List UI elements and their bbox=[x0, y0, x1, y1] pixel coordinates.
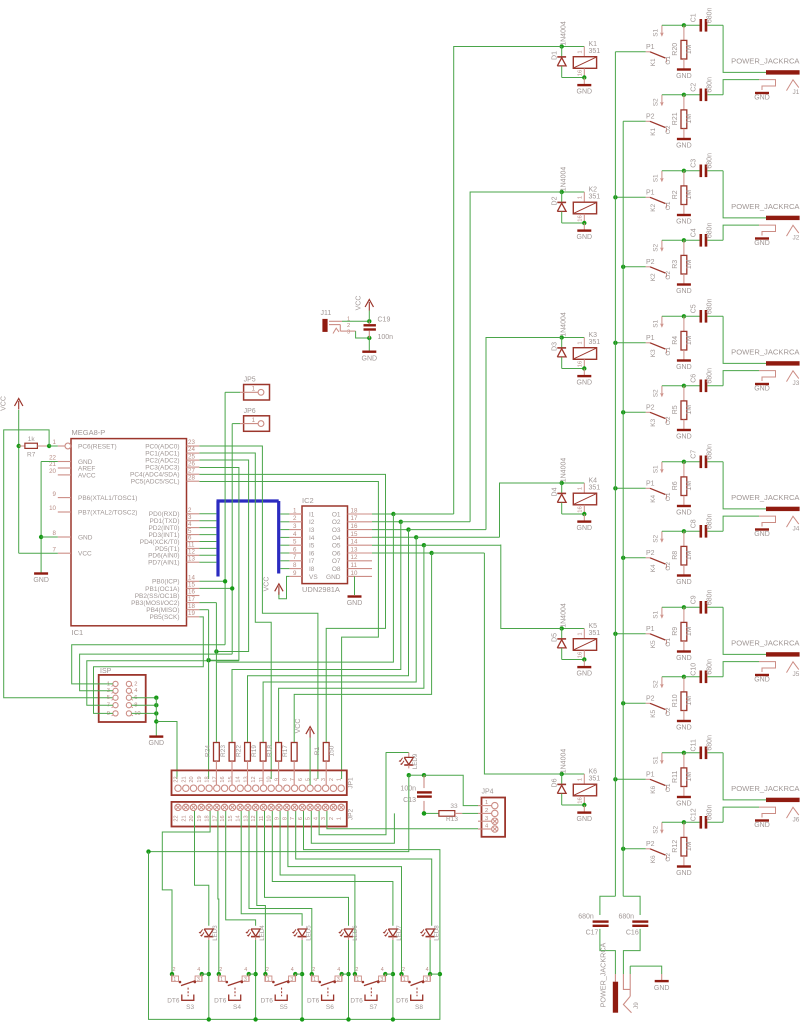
svg-text:LED8: LED8 bbox=[433, 925, 440, 941]
svg-text:1: 1 bbox=[173, 977, 176, 983]
svg-text:S3: S3 bbox=[186, 1004, 194, 1011]
svg-text:351: 351 bbox=[589, 776, 601, 783]
svg-text:GND: GND bbox=[676, 364, 692, 371]
svg-text:3: 3 bbox=[347, 330, 350, 336]
svg-text:22: 22 bbox=[174, 815, 180, 821]
svg-text:3: 3 bbox=[337, 977, 340, 983]
svg-text:PC6(RESET): PC6(RESET) bbox=[78, 443, 117, 450]
svg-text:C4: C4 bbox=[690, 228, 697, 237]
svg-text:4: 4 bbox=[313, 817, 319, 820]
svg-text:20: 20 bbox=[49, 468, 56, 475]
svg-text:4: 4 bbox=[337, 967, 340, 973]
svg-text:P2: P2 bbox=[646, 405, 655, 412]
svg-text:GND: GND bbox=[577, 234, 593, 241]
svg-text:4: 4 bbox=[188, 521, 192, 528]
svg-text:3: 3 bbox=[485, 816, 488, 822]
svg-text:14: 14 bbox=[351, 539, 358, 546]
svg-text:351: 351 bbox=[589, 630, 601, 637]
svg-text:GND: GND bbox=[676, 73, 692, 80]
svg-text:680n: 680n bbox=[707, 735, 714, 751]
svg-text:VCC: VCC bbox=[1, 396, 8, 411]
svg-text:15: 15 bbox=[228, 776, 234, 782]
svg-text:DT6: DT6 bbox=[307, 998, 320, 1005]
svg-text:2: 2 bbox=[219, 967, 222, 973]
svg-text:S8: S8 bbox=[415, 1004, 423, 1011]
svg-text:S6: S6 bbox=[326, 1004, 334, 1011]
svg-text:P1: P1 bbox=[646, 44, 655, 51]
svg-text:22: 22 bbox=[174, 776, 180, 782]
svg-text:1: 1 bbox=[577, 632, 583, 635]
svg-text:GND: GND bbox=[577, 671, 593, 678]
svg-text:18: 18 bbox=[188, 603, 195, 610]
svg-text:S1: S1 bbox=[653, 465, 660, 473]
svg-text:13: 13 bbox=[188, 555, 195, 562]
svg-text:2: 2 bbox=[329, 778, 335, 781]
svg-text:J3: J3 bbox=[793, 380, 800, 387]
svg-text:18: 18 bbox=[351, 507, 358, 514]
svg-text:351: 351 bbox=[589, 194, 601, 201]
svg-text:C12: C12 bbox=[690, 808, 697, 821]
svg-text:1M: 1M bbox=[686, 190, 693, 200]
svg-text:R22: R22 bbox=[236, 745, 243, 757]
svg-text:17: 17 bbox=[351, 515, 358, 522]
svg-text:100n: 100n bbox=[400, 785, 416, 792]
svg-text:1: 1 bbox=[313, 977, 316, 983]
svg-text:C17: C17 bbox=[586, 930, 599, 937]
svg-text:1: 1 bbox=[403, 977, 406, 983]
svg-text:IC1: IC1 bbox=[72, 628, 84, 637]
svg-text:3: 3 bbox=[290, 977, 293, 983]
svg-text:GND: GND bbox=[577, 525, 593, 532]
svg-text:VS: VS bbox=[309, 574, 318, 581]
svg-text:1N4004: 1N4004 bbox=[561, 312, 568, 337]
svg-text:680n: 680n bbox=[707, 659, 714, 675]
svg-text:4: 4 bbox=[244, 967, 247, 973]
svg-text:J5: J5 bbox=[793, 671, 800, 678]
svg-text:C3: C3 bbox=[690, 159, 697, 168]
svg-text:POWER_JACKRCA: POWER_JACKRCA bbox=[731, 638, 800, 647]
svg-text:680n: 680n bbox=[707, 7, 714, 23]
svg-text:PC5(ADC5/SCL): PC5(ADC5/SCL) bbox=[131, 479, 180, 486]
svg-text:21: 21 bbox=[181, 776, 187, 782]
svg-text:K5: K5 bbox=[589, 623, 598, 630]
svg-text:GND: GND bbox=[676, 434, 692, 441]
svg-text:12: 12 bbox=[351, 554, 358, 561]
svg-text:1M: 1M bbox=[686, 550, 693, 560]
svg-text:1M: 1M bbox=[686, 44, 693, 54]
svg-text:S1: S1 bbox=[653, 756, 660, 764]
svg-text:R7: R7 bbox=[27, 452, 36, 459]
svg-text:I3: I3 bbox=[309, 527, 315, 534]
svg-text:K6: K6 bbox=[650, 785, 657, 793]
svg-text:100n: 100n bbox=[378, 334, 394, 341]
svg-text:GND: GND bbox=[577, 816, 593, 823]
svg-text:150: 150 bbox=[329, 745, 336, 756]
svg-text:2: 2 bbox=[134, 681, 137, 687]
svg-text:GND: GND bbox=[362, 355, 378, 362]
svg-text:9: 9 bbox=[275, 778, 281, 781]
svg-text:680n: 680n bbox=[707, 222, 714, 238]
svg-text:GND: GND bbox=[754, 94, 770, 101]
svg-text:GND: GND bbox=[754, 822, 770, 829]
svg-text:J9: J9 bbox=[633, 1002, 640, 1009]
svg-text:R10: R10 bbox=[672, 694, 679, 707]
svg-text:K5: K5 bbox=[650, 640, 657, 648]
svg-text:O2: O2 bbox=[665, 416, 672, 425]
svg-text:D5: D5 bbox=[551, 633, 558, 642]
svg-text:R6: R6 bbox=[672, 481, 679, 490]
svg-text:1: 1 bbox=[53, 439, 57, 446]
svg-text:19: 19 bbox=[197, 815, 203, 821]
svg-text:O1: O1 bbox=[665, 201, 672, 210]
svg-text:S4: S4 bbox=[233, 1004, 241, 1011]
svg-text:J1: J1 bbox=[793, 89, 800, 96]
svg-text:S1: S1 bbox=[653, 28, 660, 36]
svg-text:2: 2 bbox=[173, 967, 176, 973]
svg-text:PD7(AIN1): PD7(AIN1) bbox=[148, 560, 179, 567]
svg-text:O1: O1 bbox=[665, 638, 672, 647]
svg-text:1M: 1M bbox=[686, 626, 693, 636]
svg-text:GND: GND bbox=[754, 385, 770, 392]
svg-text:R17: R17 bbox=[282, 745, 289, 757]
svg-text:PC3(ADC3): PC3(ADC3) bbox=[145, 465, 179, 472]
svg-text:DT6: DT6 bbox=[167, 998, 180, 1005]
svg-text:GND: GND bbox=[676, 870, 692, 877]
svg-text:PB3(MOSI/OC2): PB3(MOSI/OC2) bbox=[131, 600, 179, 607]
svg-text:R13: R13 bbox=[446, 816, 458, 823]
svg-text:VCC: VCC bbox=[78, 551, 92, 558]
svg-text:O8: O8 bbox=[332, 566, 341, 573]
svg-text:S1: S1 bbox=[653, 174, 660, 182]
svg-text:1: 1 bbox=[337, 778, 343, 781]
svg-text:1: 1 bbox=[267, 977, 270, 983]
svg-text:J4: J4 bbox=[793, 526, 800, 533]
svg-text:GND: GND bbox=[676, 725, 692, 732]
svg-text:16: 16 bbox=[577, 70, 583, 76]
svg-text:VCC: VCC bbox=[295, 719, 302, 734]
svg-text:POWER_JACKRCA: POWER_JACKRCA bbox=[731, 56, 800, 65]
svg-text:R20: R20 bbox=[672, 43, 679, 56]
svg-text:GND: GND bbox=[347, 600, 363, 607]
svg-text:R5: R5 bbox=[672, 405, 679, 414]
svg-text:K3: K3 bbox=[589, 332, 598, 339]
svg-text:7: 7 bbox=[293, 554, 297, 561]
svg-text:GND: GND bbox=[676, 219, 692, 226]
svg-text:K3: K3 bbox=[650, 349, 657, 357]
svg-text:R24: R24 bbox=[204, 745, 211, 757]
svg-text:POWER_JACKRCA: POWER_JACKRCA bbox=[599, 942, 608, 1007]
svg-text:6: 6 bbox=[298, 778, 304, 781]
svg-text:P1: P1 bbox=[646, 481, 655, 488]
svg-text:UDN2981A: UDN2981A bbox=[302, 585, 340, 594]
svg-text:19: 19 bbox=[188, 610, 195, 617]
svg-text:13: 13 bbox=[243, 776, 249, 782]
svg-text:3: 3 bbox=[244, 977, 247, 983]
svg-text:16: 16 bbox=[220, 776, 226, 782]
svg-text:O2: O2 bbox=[665, 853, 672, 862]
svg-text:PC0(ADC0): PC0(ADC0) bbox=[145, 443, 179, 450]
svg-text:GND: GND bbox=[676, 579, 692, 586]
svg-text:D6: D6 bbox=[551, 778, 558, 787]
svg-text:POWER_JACKRCA: POWER_JACKRCA bbox=[731, 493, 800, 502]
svg-text:1: 1 bbox=[485, 800, 488, 806]
svg-text:R11: R11 bbox=[672, 771, 679, 783]
svg-text:16: 16 bbox=[577, 506, 583, 512]
svg-text:3: 3 bbox=[293, 523, 297, 530]
svg-text:1: 1 bbox=[293, 507, 297, 514]
svg-text:JP2: JP2 bbox=[348, 809, 355, 821]
svg-text:S2: S2 bbox=[653, 825, 660, 833]
svg-text:17: 17 bbox=[188, 596, 195, 603]
svg-text:I7: I7 bbox=[309, 558, 315, 565]
svg-text:O7: O7 bbox=[332, 558, 341, 565]
svg-text:P1: P1 bbox=[646, 335, 655, 342]
svg-text:POWER_JACKRCA: POWER_JACKRCA bbox=[731, 784, 800, 793]
svg-text:DT6: DT6 bbox=[261, 998, 274, 1005]
svg-text:6: 6 bbox=[293, 546, 297, 553]
svg-text:11: 11 bbox=[351, 562, 358, 569]
svg-text:K5: K5 bbox=[650, 709, 657, 717]
svg-text:GND: GND bbox=[33, 577, 49, 584]
svg-text:P1: P1 bbox=[646, 190, 655, 197]
svg-text:LED7: LED7 bbox=[396, 925, 403, 941]
svg-text:P2: P2 bbox=[646, 696, 655, 703]
svg-text:11: 11 bbox=[259, 777, 265, 783]
svg-text:DT6: DT6 bbox=[350, 998, 363, 1005]
svg-text:10: 10 bbox=[49, 505, 56, 512]
svg-text:S2: S2 bbox=[653, 98, 660, 106]
svg-text:C7: C7 bbox=[690, 450, 697, 459]
svg-text:DT6: DT6 bbox=[396, 998, 409, 1005]
svg-text:16: 16 bbox=[577, 652, 583, 658]
svg-text:S2: S2 bbox=[653, 534, 660, 542]
svg-text:K3: K3 bbox=[650, 418, 657, 426]
svg-text:O3: O3 bbox=[332, 527, 341, 534]
svg-text:C6: C6 bbox=[690, 374, 697, 383]
svg-text:O4: O4 bbox=[332, 535, 341, 542]
svg-text:R8: R8 bbox=[672, 551, 679, 560]
svg-text:C2: C2 bbox=[690, 83, 697, 92]
svg-text:2: 2 bbox=[266, 967, 269, 973]
svg-text:1M: 1M bbox=[686, 481, 693, 491]
svg-text:R23: R23 bbox=[220, 745, 227, 757]
svg-text:1M: 1M bbox=[686, 335, 693, 345]
svg-text:4: 4 bbox=[293, 531, 297, 538]
svg-text:351: 351 bbox=[589, 485, 601, 492]
svg-text:18: 18 bbox=[205, 776, 211, 782]
svg-text:680n: 680n bbox=[707, 298, 714, 314]
svg-text:12: 12 bbox=[251, 776, 257, 782]
svg-text:16: 16 bbox=[351, 523, 358, 530]
svg-text:680n: 680n bbox=[707, 368, 714, 384]
svg-text:1: 1 bbox=[337, 817, 343, 820]
svg-text:PC4(ADC4/SDA): PC4(ADC4/SDA) bbox=[130, 472, 179, 479]
svg-text:R9: R9 bbox=[672, 627, 679, 636]
svg-text:JP5: JP5 bbox=[244, 377, 256, 384]
svg-text:24: 24 bbox=[188, 446, 195, 453]
svg-text:K4: K4 bbox=[650, 564, 657, 572]
svg-text:3: 3 bbox=[380, 977, 383, 983]
svg-text:O2: O2 bbox=[332, 519, 341, 526]
svg-text:PB1(OC1A): PB1(OC1A) bbox=[145, 586, 179, 593]
svg-text:P1: P1 bbox=[646, 626, 655, 633]
svg-text:680n: 680n bbox=[707, 77, 714, 93]
svg-text:R21: R21 bbox=[672, 112, 679, 125]
svg-text:2: 2 bbox=[347, 323, 350, 329]
svg-text:C19: C19 bbox=[378, 317, 391, 324]
svg-text:GND: GND bbox=[149, 740, 165, 747]
svg-text:21: 21 bbox=[181, 815, 187, 821]
svg-text:O6: O6 bbox=[332, 550, 341, 557]
svg-text:680n: 680n bbox=[707, 589, 714, 605]
svg-text:K4: K4 bbox=[650, 494, 657, 502]
svg-text:16: 16 bbox=[577, 215, 583, 221]
svg-text:O2: O2 bbox=[665, 271, 672, 280]
svg-text:P1: P1 bbox=[646, 772, 655, 779]
svg-text:R1: R1 bbox=[314, 746, 321, 755]
svg-text:K1: K1 bbox=[589, 41, 598, 48]
svg-text:GND: GND bbox=[754, 676, 770, 683]
svg-text:PD2(INT0): PD2(INT0) bbox=[148, 525, 179, 532]
svg-text:23: 23 bbox=[188, 439, 195, 446]
svg-text:1M: 1M bbox=[686, 114, 693, 124]
svg-text:PC2(ADC2): PC2(ADC2) bbox=[145, 458, 179, 465]
svg-text:GND: GND bbox=[754, 240, 770, 247]
svg-text:7: 7 bbox=[290, 778, 296, 781]
svg-text:LED3: LED3 bbox=[212, 925, 219, 941]
svg-text:1M: 1M bbox=[686, 696, 693, 706]
svg-text:D1: D1 bbox=[551, 51, 558, 60]
svg-text:I2: I2 bbox=[309, 519, 315, 526]
svg-text:I1: I1 bbox=[309, 511, 315, 518]
svg-text:4: 4 bbox=[134, 688, 138, 694]
svg-text:R18: R18 bbox=[267, 745, 274, 757]
svg-text:K6: K6 bbox=[650, 855, 657, 863]
svg-text:AVCC: AVCC bbox=[78, 472, 96, 479]
svg-text:14: 14 bbox=[236, 776, 242, 782]
svg-text:4: 4 bbox=[381, 967, 384, 973]
svg-text:LED9: LED9 bbox=[412, 753, 419, 769]
svg-text:GND: GND bbox=[754, 531, 770, 538]
svg-text:5: 5 bbox=[306, 817, 312, 820]
svg-text:PB5(SCK): PB5(SCK) bbox=[150, 614, 180, 621]
svg-text:LED5: LED5 bbox=[305, 925, 312, 941]
svg-text:K1: K1 bbox=[650, 58, 657, 66]
svg-text:JP1: JP1 bbox=[348, 777, 355, 789]
svg-text:C13: C13 bbox=[403, 797, 416, 804]
svg-text:I4: I4 bbox=[309, 535, 315, 542]
svg-text:D3: D3 bbox=[551, 342, 558, 351]
svg-text:DT6: DT6 bbox=[214, 998, 227, 1005]
svg-text:O1: O1 bbox=[665, 347, 672, 356]
svg-text:C11: C11 bbox=[690, 739, 697, 751]
svg-text:680n: 680n bbox=[578, 913, 594, 920]
svg-text:GND: GND bbox=[326, 574, 341, 581]
svg-text:1M: 1M bbox=[686, 405, 693, 415]
svg-text:1M: 1M bbox=[686, 841, 693, 851]
svg-text:O1: O1 bbox=[665, 56, 672, 65]
svg-text:16: 16 bbox=[188, 589, 195, 596]
svg-text:1N4004: 1N4004 bbox=[561, 167, 568, 192]
svg-text:O2: O2 bbox=[665, 707, 672, 716]
svg-text:P2: P2 bbox=[646, 259, 655, 266]
svg-text:R3: R3 bbox=[672, 260, 679, 269]
svg-text:R4: R4 bbox=[672, 336, 679, 345]
svg-text:8: 8 bbox=[282, 778, 288, 781]
svg-text:2: 2 bbox=[485, 808, 488, 814]
svg-text:680n: 680n bbox=[707, 804, 714, 820]
svg-text:LED4: LED4 bbox=[259, 925, 266, 941]
svg-text:POWER_JACKRCA: POWER_JACKRCA bbox=[731, 202, 800, 211]
svg-text:25: 25 bbox=[188, 453, 195, 460]
svg-text:13: 13 bbox=[351, 546, 358, 553]
svg-text:VCC: VCC bbox=[356, 296, 363, 311]
svg-text:16: 16 bbox=[577, 361, 583, 367]
svg-text:JP4: JP4 bbox=[482, 789, 494, 796]
svg-text:R2: R2 bbox=[672, 190, 679, 199]
svg-text:PB2(SS/OC1B): PB2(SS/OC1B) bbox=[135, 593, 180, 600]
svg-text:15: 15 bbox=[351, 531, 358, 538]
svg-text:S7: S7 bbox=[369, 1004, 377, 1011]
svg-text:4: 4 bbox=[197, 967, 200, 973]
svg-text:1: 1 bbox=[252, 386, 256, 393]
svg-text:R19: R19 bbox=[251, 745, 258, 757]
svg-text:I8: I8 bbox=[309, 566, 315, 573]
svg-text:ISP: ISP bbox=[100, 668, 112, 675]
svg-text:14: 14 bbox=[188, 575, 195, 582]
svg-text:16: 16 bbox=[577, 797, 583, 803]
svg-text:680n: 680n bbox=[619, 913, 635, 920]
svg-text:P2: P2 bbox=[646, 550, 655, 557]
svg-text:D2: D2 bbox=[551, 196, 558, 205]
svg-text:2: 2 bbox=[402, 967, 405, 973]
svg-text:C5: C5 bbox=[690, 304, 697, 313]
svg-text:POWER_JACKRCA: POWER_JACKRCA bbox=[731, 347, 800, 356]
svg-text:9: 9 bbox=[293, 570, 297, 577]
svg-text:K2: K2 bbox=[650, 273, 657, 281]
svg-text:1M: 1M bbox=[686, 259, 693, 269]
svg-text:J6: J6 bbox=[793, 817, 800, 824]
svg-text:GND: GND bbox=[676, 655, 692, 662]
svg-text:IC2: IC2 bbox=[302, 496, 314, 505]
svg-text:O1: O1 bbox=[332, 511, 341, 518]
svg-text:GND: GND bbox=[654, 985, 670, 992]
svg-text:K4: K4 bbox=[589, 477, 598, 484]
svg-text:O2: O2 bbox=[665, 562, 672, 571]
svg-text:JP6: JP6 bbox=[244, 408, 256, 415]
svg-text:4: 4 bbox=[313, 778, 319, 781]
svg-text:GND: GND bbox=[78, 534, 93, 541]
svg-text:3: 3 bbox=[321, 817, 327, 820]
svg-text:J2: J2 bbox=[793, 235, 800, 242]
svg-text:S2: S2 bbox=[653, 243, 660, 251]
svg-text:680n: 680n bbox=[707, 513, 714, 529]
svg-text:1N4004: 1N4004 bbox=[561, 21, 568, 46]
svg-text:1N4004: 1N4004 bbox=[561, 458, 568, 483]
svg-text:PC1(ADC1): PC1(ADC1) bbox=[145, 450, 179, 457]
svg-text:351: 351 bbox=[589, 339, 601, 346]
svg-text:1: 1 bbox=[220, 977, 223, 983]
svg-text:1N4004: 1N4004 bbox=[561, 603, 568, 628]
svg-text:10: 10 bbox=[351, 570, 358, 577]
svg-text:26: 26 bbox=[188, 460, 195, 467]
svg-text:GND: GND bbox=[676, 801, 692, 808]
svg-text:K2: K2 bbox=[650, 203, 657, 211]
svg-text:LED6: LED6 bbox=[352, 925, 359, 941]
svg-text:C9: C9 bbox=[690, 595, 697, 604]
svg-text:2: 2 bbox=[312, 967, 315, 973]
svg-text:K2: K2 bbox=[589, 186, 598, 193]
